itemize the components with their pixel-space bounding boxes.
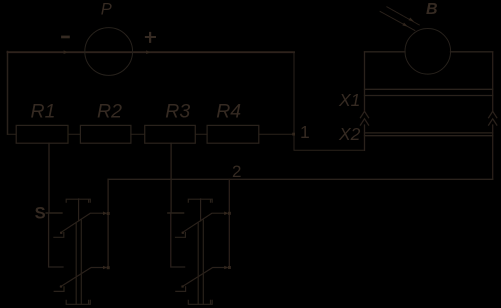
svg-text:B: B bbox=[426, 1, 438, 18]
svg-text:P: P bbox=[101, 1, 112, 19]
svg-text:S: S bbox=[35, 205, 46, 223]
svg-text:1: 1 bbox=[300, 122, 310, 142]
svg-text:2: 2 bbox=[232, 162, 241, 181]
svg-text:R3: R3 bbox=[165, 101, 190, 123]
svg-text:R4: R4 bbox=[216, 101, 241, 123]
svg-text:X2: X2 bbox=[338, 124, 361, 144]
svg-text:R2: R2 bbox=[97, 101, 122, 123]
svg-text:R1: R1 bbox=[31, 101, 56, 123]
svg-text:X1: X1 bbox=[338, 90, 360, 110]
